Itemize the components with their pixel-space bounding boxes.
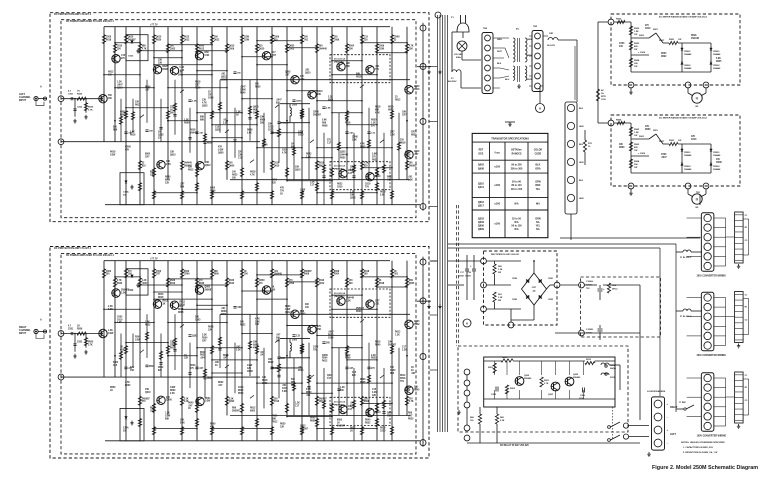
svg-text:C202: C202 [491, 394, 497, 396]
svg-text:Q310: Q310 [478, 182, 485, 185]
svg-text:DES: DES [479, 153, 484, 155]
svg-text:ORN: ORN [535, 217, 541, 220]
svg-text:R612: R612 [184, 37, 190, 39]
svg-text:2. RESISTORS IN OHMS, 1/4, 1 W: 2. RESISTORS IN OHMS, 1/4, 1 W [683, 451, 718, 454]
svg-text:R600: R600 [298, 370, 304, 372]
svg-text:(4): (4) [533, 290, 536, 293]
svg-text:R625: R625 [200, 355, 206, 357]
svg-text:R630: R630 [272, 416, 278, 418]
svg-text:Q612: Q612 [319, 283, 325, 285]
svg-text:4.7K: 4.7K [405, 151, 410, 154]
svg-text:C15: C15 [352, 372, 357, 374]
svg-text:R630: R630 [340, 158, 346, 160]
svg-text:.047: .047 [408, 414, 413, 417]
svg-text:210-023-1A: 210-023-1A [334, 58, 345, 61]
svg-text:+77.7V: +77.7V [150, 24, 158, 27]
svg-text:1/2W: 1/2W [218, 150, 224, 152]
svg-text:R616: R616 [200, 352, 206, 354]
svg-text:C501: C501 [68, 328, 74, 330]
svg-text:2.2K: 2.2K [346, 301, 351, 303]
svg-text:−: − [667, 415, 669, 419]
svg-text:10K: 10K [170, 46, 175, 48]
svg-text:CR7: CR7 [390, 132, 395, 134]
svg-text:R504: R504 [322, 357, 328, 360]
svg-text:R903: R903 [634, 144, 640, 146]
svg-text:C609: C609 [379, 46, 385, 48]
svg-text:10000: 10000 [465, 276, 472, 278]
svg-text:C610: C610 [691, 139, 697, 141]
svg-text:R618: R618 [400, 143, 406, 145]
svg-text:S901: S901 [639, 35, 645, 37]
svg-text:R505: R505 [88, 107, 94, 109]
svg-text:R904: R904 [634, 160, 640, 163]
svg-text:R640: R640 [414, 389, 420, 392]
svg-text:+ C900: + C900 [638, 153, 646, 155]
svg-text:.0047: .0047 [661, 156, 667, 159]
svg-text:Q610: Q610 [305, 73, 311, 75]
svg-text:RANGES: RANGES [512, 152, 522, 155]
svg-text:R618: R618 [250, 172, 256, 174]
svg-text:R612: R612 [395, 100, 401, 102]
svg-text:.0047: .0047 [200, 357, 206, 360]
svg-text:4.7K: 4.7K [409, 400, 414, 403]
svg-text:R608: R608 [304, 274, 310, 276]
svg-text:CR902: CR902 [713, 65, 720, 67]
svg-text:10K: 10K [281, 358, 285, 360]
svg-text:.001: .001 [223, 120, 228, 122]
svg-text:R608: R608 [247, 130, 253, 132]
svg-text:R907: R907 [659, 141, 665, 143]
svg-text:R600: R600 [619, 147, 625, 149]
svg-text:Q612: Q612 [285, 312, 291, 314]
svg-text:.001: .001 [375, 304, 380, 306]
svg-text:R618: R618 [380, 428, 386, 430]
svg-text:CR7: CR7 [238, 152, 243, 154]
svg-text:C603: C603 [117, 316, 123, 318]
svg-text:68K: 68K [200, 120, 205, 122]
svg-text:Q610: Q610 [274, 166, 280, 168]
svg-text:LEFT: LEFT [670, 433, 677, 436]
svg-text:R630: R630 [306, 392, 312, 394]
svg-text:68K: 68K [272, 418, 276, 420]
svg-text:R622: R622 [372, 160, 378, 162]
svg-text:1.2K: 1.2K [184, 120, 189, 122]
svg-text:12K: 12K [247, 368, 251, 370]
svg-text:.001: .001 [405, 387, 410, 389]
svg-text:5.6K: 5.6K [247, 133, 252, 135]
svg-text:2.2K: 2.2K [350, 170, 355, 172]
svg-text:CR60: CR60 [125, 147, 132, 149]
svg-text:1N4448: 1N4448 [190, 132, 199, 135]
svg-text:2N5087: 2N5087 [356, 308, 365, 310]
svg-text:.001: .001 [375, 66, 380, 68]
svg-text:R618: R618 [190, 130, 196, 132]
svg-text:−: − [667, 441, 669, 445]
svg-text:R622: R622 [145, 324, 151, 326]
svg-text:R630: R630 [310, 420, 316, 422]
svg-text:Q605: Q605 [120, 112, 126, 114]
svg-text:5.6K: 5.6K [372, 154, 377, 156]
svg-text:.047: .047 [199, 367, 204, 370]
svg-text:2.2K: 2.2K [236, 350, 241, 352]
svg-text:R600: R600 [110, 387, 116, 389]
svg-text:TRANSISTOR SPECIFICATIONS: TRANSISTOR SPECIFICATIONS [491, 138, 529, 141]
svg-text:C603: C603 [170, 49, 176, 51]
svg-text:.047: .047 [223, 357, 228, 360]
svg-text:R608: R608 [334, 271, 340, 273]
svg-text:12K: 12K [372, 395, 376, 397]
svg-text:12K: 12K [135, 102, 140, 104]
svg-text:R618: R618 [158, 297, 164, 299]
svg-text:12K: 12K [280, 427, 284, 429]
svg-text:A: A [40, 319, 42, 322]
svg-text:.001: .001 [411, 373, 416, 375]
svg-text:R504: R504 [349, 45, 355, 48]
svg-text:R630: R630 [156, 40, 162, 42]
svg-text:1/2W: 1/2W [244, 40, 250, 42]
svg-text:1/2W: 1/2W [247, 365, 253, 367]
svg-text:BLK: BLK [535, 164, 540, 167]
svg-text:R608: R608 [120, 115, 126, 117]
svg-text:M: M [696, 198, 699, 202]
svg-text:Q612: Q612 [221, 77, 227, 79]
svg-text:1.2K: 1.2K [236, 112, 241, 114]
svg-text:75V: 75V [586, 288, 590, 290]
svg-text:4.7K: 4.7K [125, 381, 130, 384]
svg-text:CR7: CR7 [156, 274, 161, 276]
svg-text:COIL: COIL [601, 99, 607, 101]
svg-text:1.5K: 1.5K [634, 31, 639, 33]
svg-text:Q610: Q610 [253, 107, 259, 109]
svg-text:R612: R612 [322, 361, 328, 363]
svg-text:15K: 15K [170, 152, 175, 154]
svg-text:2.7K: 2.7K [544, 383, 549, 385]
svg-text:.0047: .0047 [237, 306, 243, 309]
svg-text:68K: 68K [375, 110, 380, 112]
svg-text:6800: 6800 [221, 314, 227, 316]
svg-text:1K: 1K [394, 271, 397, 273]
svg-text:R630: R630 [328, 334, 334, 336]
svg-text:5.6K: 5.6K [180, 422, 185, 424]
svg-text:C610: C610 [274, 163, 280, 165]
svg-text:Q200: Q200 [524, 375, 530, 377]
svg-text:Q302: Q302 [229, 401, 235, 403]
svg-text:R907: R907 [659, 40, 665, 42]
svg-text:Q605: Q605 [296, 101, 302, 103]
svg-text:R640: R640 [188, 401, 194, 404]
svg-text:R504: R504 [238, 392, 244, 395]
svg-text:.001: .001 [304, 40, 309, 42]
svg-text:12K: 12K [202, 100, 207, 102]
svg-text:6800: 6800 [145, 154, 151, 156]
svg-text:C502: C502 [77, 107, 83, 109]
svg-text:1K: 1K [350, 431, 353, 433]
svg-text:GRN: GRN [579, 198, 584, 200]
svg-text:1N4448: 1N4448 [713, 168, 721, 171]
svg-text:R200: R200 [502, 357, 508, 359]
svg-text:12K: 12K [364, 398, 368, 400]
svg-text:L600: L600 [292, 105, 298, 107]
svg-text:C610: C610 [375, 176, 381, 178]
svg-text:1K: 1K [236, 115, 239, 117]
svg-text:R616: R616 [195, 88, 201, 90]
svg-text:15K: 15K [268, 124, 273, 126]
svg-text:2001 CONVERTER WIRING: 2001 CONVERTER WIRING [697, 355, 727, 357]
svg-text:R640: R640 [190, 364, 196, 367]
svg-text:.001: .001 [305, 70, 310, 72]
svg-text:1K: 1K [280, 194, 283, 196]
svg-text:R618: R618 [356, 77, 362, 79]
svg-text:CR7: CR7 [202, 340, 207, 342]
svg-text:Q610: Q610 [295, 170, 301, 172]
svg-text:Q605: Q605 [262, 145, 268, 147]
svg-text:10K: 10K [317, 94, 322, 96]
svg-text:75V: 75V [387, 415, 391, 417]
svg-text:2.2K: 2.2K [500, 420, 505, 422]
svg-text:50 to 90: 50 to 90 [512, 181, 522, 184]
svg-text:15K: 15K [349, 49, 354, 51]
svg-text:1K: 1K [411, 367, 414, 369]
svg-text:47K: 47K [645, 125, 650, 128]
svg-text:5.6K: 5.6K [178, 72, 183, 74]
svg-text:R66: R66 [408, 412, 413, 414]
svg-text:1K: 1K [188, 408, 191, 410]
svg-text:2N5087: 2N5087 [337, 425, 346, 427]
svg-text:5.6K: 5.6K [326, 108, 331, 110]
svg-text:R616: R616 [158, 294, 164, 296]
svg-text:SW1: SW1 [653, 29, 659, 31]
svg-text:68K: 68K [356, 74, 361, 76]
svg-text:NA: NA [536, 221, 540, 224]
svg-text:C603: C603 [289, 49, 295, 51]
svg-text:1/2W: 1/2W [244, 37, 250, 39]
svg-text:.001: .001 [298, 367, 303, 369]
svg-text:.001: .001 [408, 177, 413, 179]
svg-text:R625: R625 [207, 143, 213, 145]
svg-text:Q610: Q610 [170, 155, 176, 157]
svg-text:A: A [40, 86, 42, 89]
svg-text:C500: C500 [619, 43, 625, 45]
svg-text:CR60: CR60 [313, 112, 320, 114]
svg-text:100V CONVERTER WIRING: 100V CONVERTER WIRING [697, 436, 727, 438]
svg-text:C15: C15 [113, 365, 118, 367]
svg-text:GRN: GRN [579, 126, 584, 128]
svg-text:R600: R600 [184, 123, 190, 125]
svg-text:2N5087: 2N5087 [142, 398, 151, 400]
svg-text:3.3K: 3.3K [352, 140, 357, 142]
svg-text:R901: R901 [669, 39, 675, 41]
svg-text:1K: 1K [291, 144, 294, 146]
svg-text:210-023-1A: 210-023-1A [334, 400, 346, 403]
svg-text:R612: R612 [272, 421, 278, 423]
svg-text:INPUT: INPUT [19, 99, 27, 102]
svg-text:4.7K: 4.7K [360, 143, 365, 146]
svg-text:75V: 75V [280, 191, 285, 193]
svg-text:Q610: Q610 [156, 37, 162, 39]
svg-text:R608: R608 [223, 355, 229, 357]
svg-text:.047: .047 [350, 401, 355, 404]
svg-text:C609: C609 [328, 337, 334, 339]
svg-text:12K: 12K [184, 358, 188, 360]
svg-text:T1 REF: T1 REF [679, 402, 687, 404]
svg-text:R505: R505 [88, 342, 94, 344]
svg-text:1/2W: 1/2W [285, 309, 291, 311]
svg-text:R618: R618 [400, 378, 406, 380]
svg-text:5.6K: 5.6K [180, 67, 185, 69]
svg-text:R203: R203 [488, 367, 494, 369]
svg-text:110 to 150: 110 to 150 [511, 188, 523, 191]
svg-text:PA RELAY 50 KEY 200-026: PA RELAY 50 KEY 200-026 [500, 444, 529, 447]
svg-text:R640: R640 [150, 406, 156, 409]
svg-text:1N4448: 1N4448 [713, 154, 721, 157]
svg-text:Q605: Q605 [253, 345, 259, 347]
svg-text:1.2K: 1.2K [340, 387, 345, 389]
svg-text:R630: R630 [184, 271, 190, 273]
svg-text:C15: C15 [350, 405, 355, 407]
svg-text:BLU: BLU [505, 79, 510, 81]
svg-text:1.2K: 1.2K [142, 280, 147, 282]
svg-text:R630: R630 [280, 424, 286, 426]
svg-text:1.2K: 1.2K [306, 157, 311, 159]
svg-text:Q311: Q311 [478, 186, 485, 189]
svg-text:1K: 1K [77, 91, 80, 93]
svg-text:CR60: CR60 [350, 167, 357, 169]
svg-text:R640: R640 [365, 419, 371, 422]
svg-text:2.2K: 2.2K [166, 164, 171, 166]
svg-text:+ C900: + C900 [638, 52, 646, 54]
svg-text:CR60: CR60 [170, 345, 176, 347]
svg-text:2W: 2W [498, 272, 501, 274]
svg-text:5.6K: 5.6K [205, 55, 210, 57]
svg-text:R630: R630 [207, 378, 213, 380]
svg-text:R622: R622 [240, 324, 246, 326]
svg-text:1N4448: 1N4448 [684, 67, 692, 70]
svg-text:47K: 47K [253, 346, 257, 349]
svg-text:.047: .047 [180, 183, 185, 186]
svg-text:+: + [667, 428, 669, 432]
svg-text:C610: C610 [117, 46, 123, 48]
svg-text:2N5087: 2N5087 [409, 166, 418, 168]
svg-text:Figure 2. Model 250M Schematic: Figure 2. Model 250M Schematic Diagram [652, 465, 758, 471]
svg-text:VCBO: VCBO [494, 152, 500, 154]
svg-text:R600: R600 [645, 129, 651, 131]
svg-text:1. CAPACITORS IN MFD, 50V: 1. CAPACITORS IN MFD, 50V [683, 446, 713, 449]
svg-text:R612: R612 [345, 355, 351, 357]
svg-text:1K: 1K [184, 355, 187, 357]
svg-text:CR7: CR7 [145, 157, 150, 159]
svg-text:75V: 75V [365, 187, 370, 189]
svg-text:C17: C17 [348, 409, 353, 411]
svg-text:5.6K: 5.6K [130, 132, 135, 134]
svg-text:3A(M): 3A(M) [610, 367, 616, 370]
svg-text:Q809: Q809 [478, 228, 485, 231]
svg-text:R612: R612 [250, 407, 256, 409]
svg-text:C500: C500 [661, 154, 667, 156]
svg-text:Q302: Q302 [117, 88, 123, 90]
svg-text:10K: 10K [180, 420, 184, 422]
svg-text:2.2K: 2.2K [328, 97, 333, 99]
svg-text:6800: 6800 [113, 362, 119, 364]
svg-text:47K: 47K [280, 187, 285, 190]
svg-text:YEL: YEL [536, 224, 541, 227]
svg-text:2N5087: 2N5087 [313, 115, 322, 117]
svg-text:4.7K: 4.7K [375, 112, 380, 115]
svg-text:R618: R618 [379, 283, 385, 285]
svg-text:GRN: GRN [497, 39, 502, 41]
svg-text:R608: R608 [345, 358, 351, 360]
svg-text:R506: R506 [77, 94, 83, 96]
svg-text:R625: R625 [125, 385, 131, 387]
svg-text:4.7K: 4.7K [364, 162, 369, 165]
svg-text:4.7K: 4.7K [142, 48, 147, 51]
svg-text:WHT: WHT [497, 51, 502, 53]
svg-text:R640: R640 [229, 282, 235, 285]
svg-text:C501: C501 [68, 94, 74, 96]
svg-text:1.2K: 1.2K [390, 135, 395, 137]
svg-text:3.3K: 3.3K [310, 182, 315, 184]
svg-text:R608: R608 [208, 326, 214, 328]
svg-text:1.2K: 1.2K [295, 402, 300, 404]
svg-text:Q316: Q316 [478, 201, 485, 204]
svg-text:1K: 1K [120, 347, 123, 349]
svg-text:3.3K: 3.3K [229, 398, 234, 400]
svg-text:C17: C17 [295, 405, 300, 407]
svg-text:C610: C610 [645, 28, 651, 30]
svg-text:R622: R622 [306, 154, 312, 156]
svg-text:.047: .047 [188, 404, 193, 407]
svg-text:R622: R622 [337, 184, 343, 186]
svg-text:CR60: CR60 [240, 90, 247, 92]
svg-text:75V: 75V [313, 350, 317, 352]
svg-text:CR7: CR7 [208, 95, 213, 97]
svg-text:R616: R616 [388, 107, 394, 109]
svg-text:15K: 15K [317, 329, 321, 331]
svg-text:CR901: CR901 [684, 51, 691, 53]
svg-text:C610: C610 [380, 431, 386, 433]
svg-text:C609: C609 [229, 49, 235, 51]
svg-text:C603: C603 [390, 370, 396, 372]
svg-text:INPUT: INPUT [19, 332, 27, 335]
svg-text:R630: R630 [199, 283, 205, 285]
svg-text:2001 CONVERTER WIRING: 2001 CONVERTER WIRING [697, 276, 727, 278]
svg-text:1N4448: 1N4448 [684, 168, 692, 171]
svg-text:C609: C609 [208, 98, 214, 100]
svg-text:≥100: ≥100 [494, 165, 500, 168]
svg-text:R625: R625 [232, 175, 238, 177]
svg-text:.047: .047 [285, 74, 290, 77]
svg-text:.001: .001 [282, 385, 287, 387]
svg-text:Q302: Q302 [285, 72, 291, 74]
svg-text:CB1: CB1 [549, 33, 554, 35]
svg-text:L600: L600 [292, 340, 298, 342]
svg-text:1N4448: 1N4448 [713, 67, 721, 70]
svg-text:GRN: GRN [579, 162, 584, 164]
svg-text:2.7K: 2.7K [88, 345, 93, 347]
svg-text:15K: 15K [304, 37, 309, 39]
svg-text:6800: 6800 [328, 100, 334, 102]
svg-text:1N4448: 1N4448 [184, 162, 193, 165]
svg-text:1N4448: 1N4448 [281, 122, 289, 125]
svg-text:GRN: GRN [527, 39, 532, 41]
svg-text:10K: 10K [402, 112, 407, 114]
svg-text:R616: R616 [170, 283, 176, 285]
svg-text:1N4448: 1N4448 [713, 53, 721, 56]
svg-text:15K: 15K [214, 37, 219, 39]
svg-text:Q201: Q201 [548, 394, 554, 396]
svg-text:1/2W: 1/2W [298, 132, 304, 134]
svg-text:75V: 75V [409, 398, 413, 400]
svg-text:R612: R612 [135, 105, 141, 107]
